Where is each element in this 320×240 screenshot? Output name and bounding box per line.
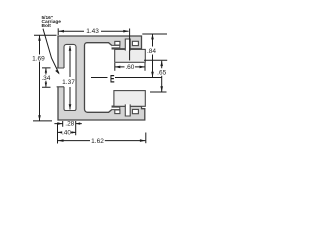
1.43 right arrow xyxy=(123,30,129,33)
1.69 ties xyxy=(33,35,57,121)
arrowheads xyxy=(38,30,163,142)
extrusion main body xyxy=(58,36,145,120)
top hook lip notch (open left) xyxy=(112,45,120,48)
svg-text:.60: .60 xyxy=(125,64,134,71)
bottom T-slot throat (open to nut block) xyxy=(125,104,130,116)
carriage bolt slot (white) with left-face throat xyxy=(57,44,76,110)
.84 dim xyxy=(152,34,154,77)
svg-text:.40: .40 xyxy=(62,130,71,137)
1.62 dim line xyxy=(58,140,145,142)
1.62 right tie xyxy=(145,133,147,144)
.60 dim xyxy=(115,66,145,68)
svg-text:.65: .65 xyxy=(157,69,166,76)
throat edges xyxy=(57,68,64,87)
.65 dim xyxy=(161,61,163,92)
svg-text:.28: .28 xyxy=(65,121,74,128)
.40/1.62 left tie xyxy=(57,123,59,144)
.28 arrows xyxy=(58,122,63,124)
svg-text:.84: .84 xyxy=(147,48,156,55)
leader line xyxy=(43,29,59,74)
.28 dim (arrows outside) xyxy=(54,123,81,125)
.34 arrows xyxy=(45,68,47,73)
bottom nut block xyxy=(114,91,145,107)
.65 mid tie (block bottom ref) xyxy=(144,59,167,61)
bottom T-slot cavities xyxy=(115,110,120,114)
svg-text:.34: .34 xyxy=(41,75,50,82)
svg-text:1.43: 1.43 xyxy=(86,28,99,35)
.84 arrows xyxy=(151,34,154,40)
1.37 arrows xyxy=(69,45,72,51)
1.37 dim inside slot xyxy=(69,46,71,110)
.40 arrows xyxy=(58,131,63,133)
.60 ties xyxy=(115,63,145,71)
1.43 left arrow xyxy=(59,30,65,33)
.65 arrows xyxy=(160,61,163,67)
svg-text:1.62: 1.62 xyxy=(91,138,104,145)
svg-text:E: E xyxy=(110,73,115,85)
centerline xyxy=(91,77,162,79)
.34 ties xyxy=(42,68,51,87)
1.43 right tie long xyxy=(129,29,131,61)
1.62 arrows xyxy=(58,139,64,142)
.84 top tie xyxy=(142,33,167,35)
.65 bottom tie (block top ref) xyxy=(150,91,167,93)
texts xyxy=(32,28,167,145)
leader arrow xyxy=(55,70,59,75)
1.43 left tie xyxy=(57,28,59,35)
svg-text:Bolt: Bolt xyxy=(42,23,52,29)
top T-slot throat (open to nut block) xyxy=(125,39,130,51)
1.69 dim line xyxy=(39,35,41,121)
.28 ties xyxy=(63,121,76,135)
top nut block xyxy=(115,49,146,62)
top T-slot cavities xyxy=(115,41,120,45)
.40 dim xyxy=(58,131,76,133)
bottom hook lip notch (open left) xyxy=(112,107,120,110)
.34 dim xyxy=(45,68,47,87)
.60 arrows xyxy=(115,66,121,69)
svg-text:1.37: 1.37 xyxy=(62,79,75,86)
1.69 bottom arrow xyxy=(38,115,41,121)
1.43 dim line xyxy=(59,30,129,32)
1.69 top arrow xyxy=(38,35,41,41)
svg-text:1.69: 1.69 xyxy=(32,55,45,62)
slot outline xyxy=(64,44,76,110)
